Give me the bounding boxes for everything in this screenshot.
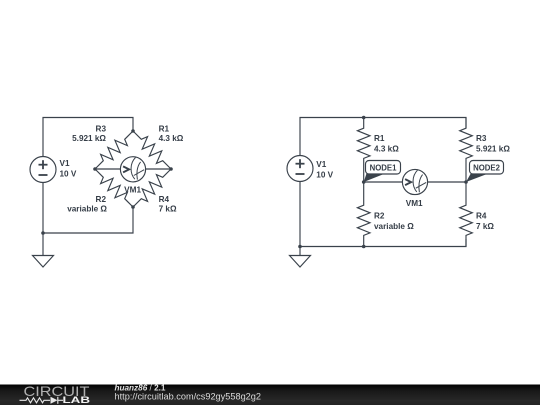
NODE2 callout box	[470, 161, 504, 175]
resistor R3 (right circuit)	[460, 118, 473, 183]
wire V1 bottom to bottom rail (left)	[43, 183, 133, 234]
node NODE1 dot	[362, 180, 366, 184]
ground (right circuit)	[290, 247, 311, 268]
wire V1 bottom to bottom rail (right)	[300, 182, 466, 247]
node dot top vertex	[131, 129, 135, 133]
svg-text:7 kΩ: 7 kΩ	[159, 204, 177, 213]
node dot right vertex	[169, 167, 173, 171]
svg-text:variable Ω: variable Ω	[374, 222, 414, 231]
svg-text:R2: R2	[96, 195, 107, 204]
voltage source V1 (left circuit)	[30, 157, 56, 183]
svg-text:R4: R4	[476, 211, 487, 220]
label R1 4.3 k ohm (right)	[374, 134, 399, 153]
voltage source V1 (right circuit)	[287, 156, 313, 182]
resistor R2 (right circuit)	[357, 182, 370, 247]
NODE2 callout pointer	[466, 174, 487, 182]
svg-text:LAB: LAB	[63, 395, 91, 405]
logo resistor zigzag	[20, 398, 51, 403]
svg-text:10 V: 10 V	[60, 169, 77, 178]
svg-text:NODE1: NODE1	[370, 163, 398, 172]
footer bar	[0, 385, 540, 405]
wire voltmeter to right vertex (left circuit)	[146, 168, 171, 170]
resistor R1 (right circuit)	[357, 118, 370, 183]
resistor R1 (bridge top-right)	[133, 131, 171, 169]
label R3 5.921 k ohm	[72, 124, 106, 143]
svg-text:R1: R1	[374, 134, 385, 143]
node NODE2 dot	[464, 180, 468, 184]
svg-text:7 kΩ: 7 kΩ	[476, 222, 494, 231]
svg-text:V1: V1	[316, 160, 326, 169]
label R1 4.3 k ohm	[159, 124, 184, 143]
voltmeter VM1 (left circuit)	[120, 157, 145, 182]
wire NODE1 to voltmeter (right)	[364, 181, 403, 183]
logo diode	[51, 397, 58, 404]
resistor R4 (right circuit)	[460, 182, 473, 247]
node dot ground junction (left)	[41, 231, 45, 235]
svg-text:5.921 kΩ: 5.921 kΩ	[72, 134, 106, 143]
svg-text:4.3 kΩ: 4.3 kΩ	[374, 144, 399, 153]
voltmeter VM1 (right circuit)	[402, 169, 427, 194]
label V1 10 V (left)	[60, 159, 77, 178]
svg-text:10 V: 10 V	[316, 170, 333, 179]
node dot bottom tee (right)	[362, 245, 366, 249]
wire left vertex to voltmeter (left circuit)	[95, 168, 120, 170]
svg-text:R1: R1	[159, 124, 170, 133]
ground (left circuit)	[33, 233, 54, 267]
label V1 10 V (right)	[316, 160, 333, 179]
node dot left vertex	[93, 167, 97, 171]
NODE1 callout box	[366, 161, 401, 175]
label R4 7 k ohm	[159, 195, 177, 213]
svg-text:VM1: VM1	[406, 199, 423, 208]
wire voltmeter to NODE2 (right)	[428, 181, 466, 183]
svg-text:5.921 kΩ: 5.921 kΩ	[476, 144, 510, 153]
NODE1 callout pointer	[364, 174, 385, 183]
resistor R4 (bridge bottom-right)	[133, 169, 171, 207]
svg-text:R2: R2	[374, 211, 385, 220]
svg-text:V1: V1	[60, 159, 70, 168]
label R2 variable ohm (right)	[374, 211, 414, 231]
svg-text:R3: R3	[96, 124, 107, 133]
node dot ground junction (right)	[298, 245, 302, 249]
resistor R2 (bridge bottom-left)	[95, 169, 133, 207]
label R4 7 k ohm (right)	[476, 211, 494, 231]
svg-text:variable Ω: variable Ω	[67, 204, 107, 213]
node dot bottom vertex	[131, 205, 135, 209]
svg-text:VM1: VM1	[124, 186, 141, 195]
svg-text:R3: R3	[476, 134, 487, 143]
node dot top tee (right)	[362, 116, 366, 120]
svg-text:4.3 kΩ: 4.3 kΩ	[159, 134, 184, 143]
svg-text:R4: R4	[159, 195, 170, 204]
wire V1 top to top rail (right)	[300, 118, 466, 156]
label R2 variable ohm	[67, 195, 107, 213]
svg-text:NODE2: NODE2	[473, 163, 501, 172]
svg-text:http://circuitlab.com/cs92gy55: http://circuitlab.com/cs92gy558g2g2	[115, 392, 262, 402]
wire V1 top to top rail (left)	[43, 118, 133, 157]
resistor R3 (bridge top-left)	[95, 131, 133, 169]
label R3 5.921 k ohm (right)	[476, 134, 510, 153]
